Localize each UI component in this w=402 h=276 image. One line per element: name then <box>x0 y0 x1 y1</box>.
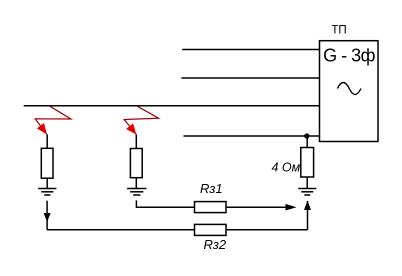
resistor 4 Ом <box>301 148 314 178</box>
lightning arrow 2 (strike on L3) <box>124 106 158 134</box>
wire (grounding resistor 2 to ground) <box>135 178 137 188</box>
svg-text:Rз2: Rз2 <box>204 237 227 252</box>
wire (right vertical down to Rз2 path) <box>307 201 309 230</box>
wire (strike point to grounding resistor 1) <box>46 135 48 149</box>
wire (resistor 4 Ом to ground) <box>306 177 308 188</box>
ground (under 4 Ом resistor) <box>298 189 316 196</box>
generator box ТП <box>320 41 379 142</box>
arrowhead (current direction, down on left vertical) <box>44 213 51 222</box>
AC source sine symbol <box>337 83 361 95</box>
wire PEN (neutral line) <box>184 135 320 137</box>
wire (strike point to grounding resistor 2) <box>135 135 137 149</box>
grounding resistor 1 <box>41 148 53 178</box>
wire (node to resistor 4 Ом) <box>306 136 308 148</box>
wire (ground 2 tail down to Rз1 path) <box>136 200 194 207</box>
wire L2 (phase line 2) <box>181 77 319 79</box>
resistor Rз2 <box>195 224 227 235</box>
grounding resistor 2 <box>130 149 142 178</box>
wire (Rз1 to arrow) <box>226 206 286 208</box>
arrowhead (current direction, up at ground of 4 Ом) <box>304 201 311 211</box>
svg-text:4 Ом: 4 Ом <box>272 160 301 174</box>
lightning arrow 1 (strike on L3) <box>35 106 71 134</box>
svg-text:Rз1: Rз1 <box>200 181 223 196</box>
wire (Rз2 path right segment) <box>226 229 308 231</box>
ground (under grounding resistor 1) <box>38 189 56 196</box>
wire (left vertical from ground 1 tail) <box>46 201 48 230</box>
ground (under grounding resistor 2) <box>127 189 146 196</box>
wire L3 (phase line 3) <box>24 105 320 107</box>
node A (junction dot on neutral) <box>304 133 309 138</box>
svg-text:ТП: ТП <box>331 25 346 37</box>
svg-text:G - 3ф: G - 3ф <box>323 46 376 66</box>
wire (Rз2 path left segment) <box>47 229 194 231</box>
wire L1 (phase line 1) <box>182 49 319 51</box>
wire (grounding resistor 1 to ground) <box>46 178 48 188</box>
arrowhead (current direction, right) <box>286 204 297 211</box>
resistor Rз1 <box>195 202 227 213</box>
